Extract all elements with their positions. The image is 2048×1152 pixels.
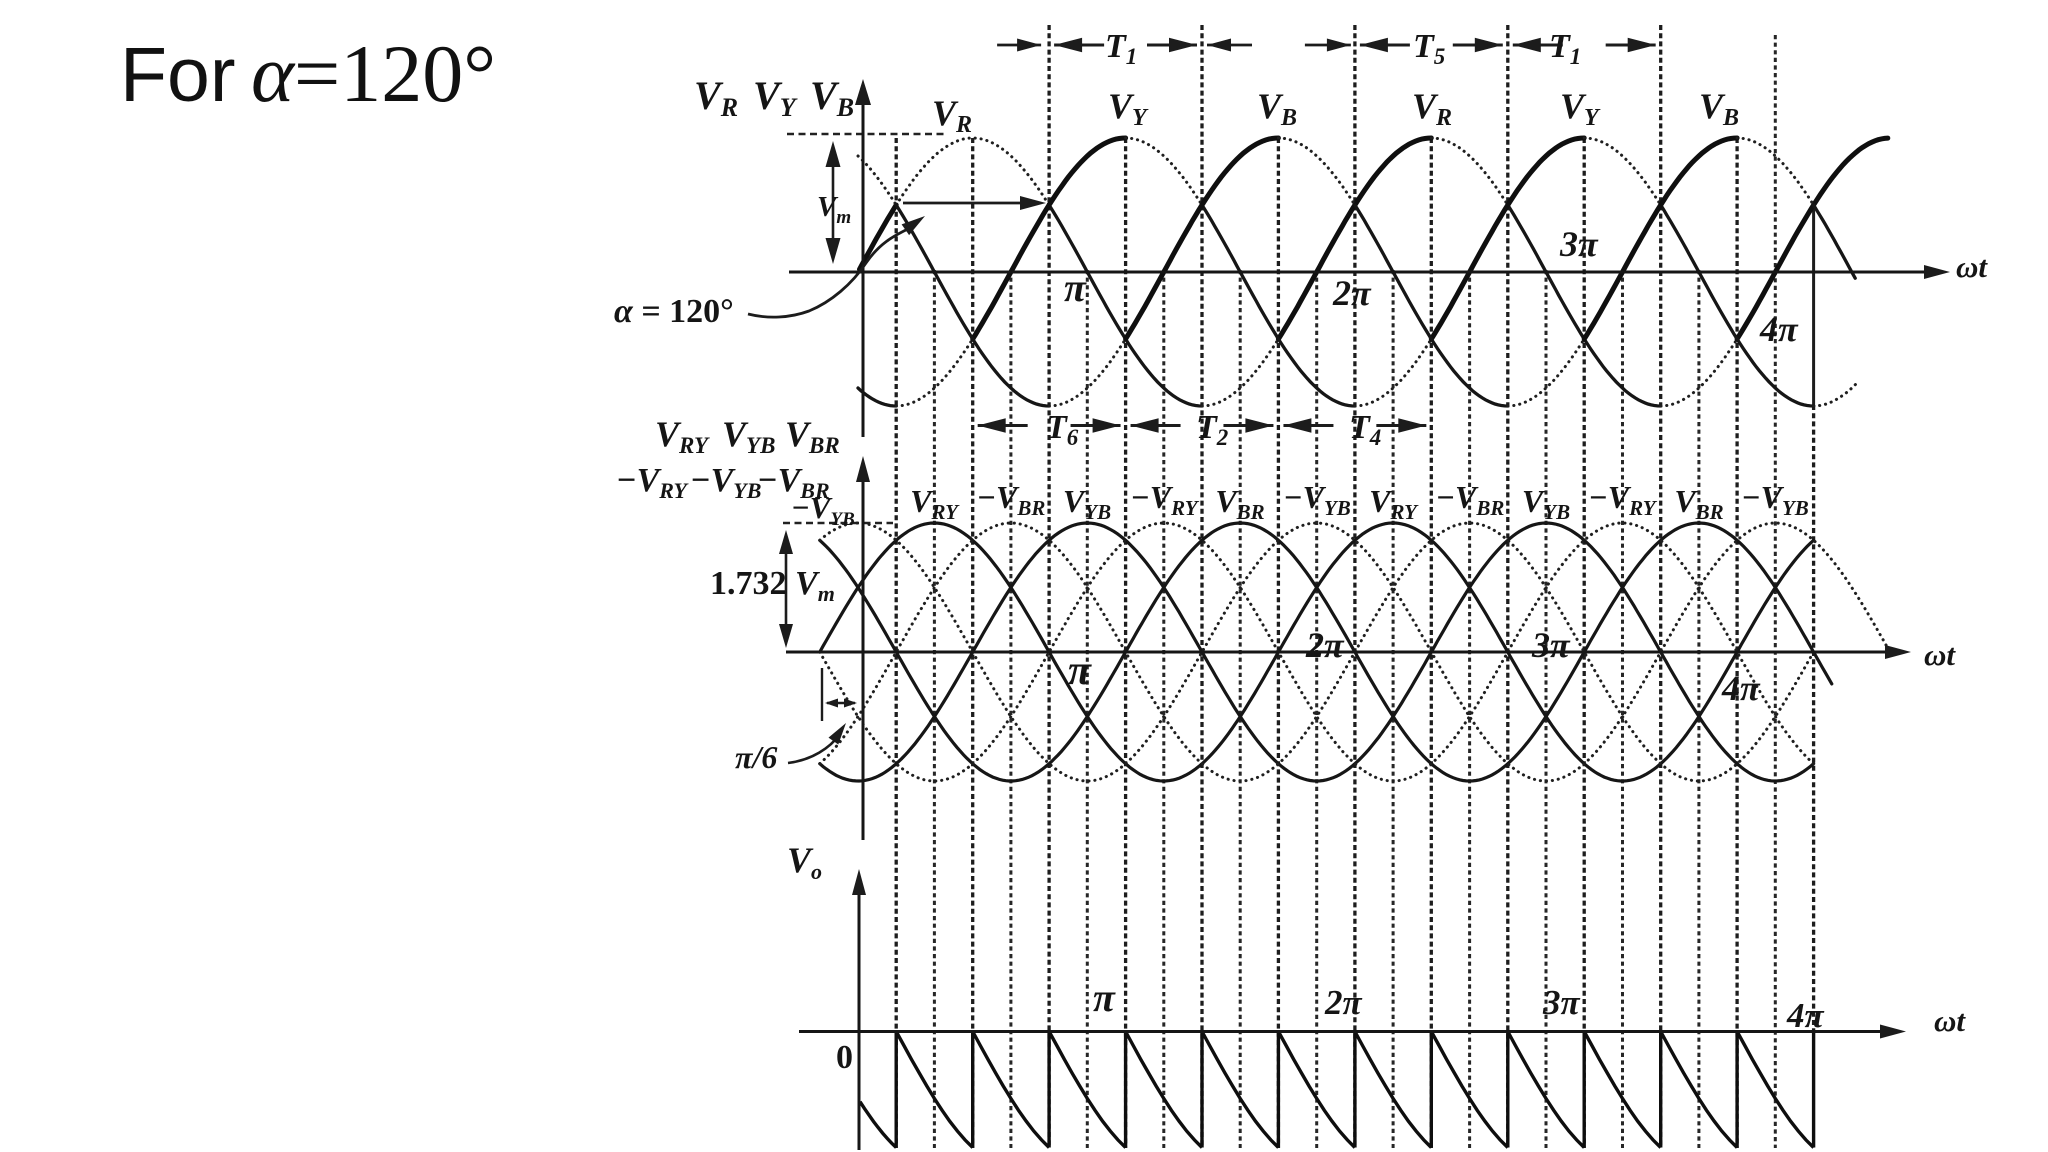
svg-text:2π: 2π (1324, 983, 1363, 1022)
svg-text:Vm: Vm (817, 191, 851, 228)
top plot: dashed peak level line (787, 133, 948, 135)
bottom plot vertical axis with arrow (858, 883, 861, 1150)
svg-text:−VBR: −VBR (1436, 479, 1505, 520)
leading right arrow before T1 (997, 44, 1041, 47)
svg-text:T5: T5 (1413, 28, 1445, 69)
svg-text:−VYB: −VYB (1741, 479, 1809, 520)
unlabeled interval arrows (1207, 44, 1252, 47)
svg-text:VYB: VYB (722, 414, 775, 458)
svg-text:α=120°: α=120° (251, 28, 496, 119)
svg-text:VYB: VYB (1063, 483, 1111, 524)
svg-text:−VYB: −VYB (690, 462, 761, 503)
waveform V_Y (phase Y) segments (858, 388, 896, 406)
svg-text:T4: T4 (1349, 409, 1381, 450)
svg-text:ωt: ωt (1956, 249, 1988, 284)
svg-text:π: π (1064, 265, 1087, 310)
svg-text:VBR: VBR (1215, 483, 1264, 524)
svg-text:VYB: VYB (1522, 483, 1570, 524)
svg-text:π: π (1068, 648, 1092, 694)
svg-text:ωt: ωt (1924, 637, 1956, 672)
svg-text:π/6: π/6 (735, 739, 777, 775)
svg-text:VR: VR (694, 73, 738, 122)
vertical pi/6 gridlines (895, 138, 898, 1148)
svg-text:ωt: ωt (1934, 1003, 1966, 1038)
svg-text:T1: T1 (1549, 28, 1581, 69)
output voltage Vo sawtooth (860, 1032, 1814, 1148)
waveform V_R (phase R) segments (860, 205, 897, 269)
svg-text:VRY: VRY (910, 483, 960, 524)
waveform V_B (phase B) segments (858, 156, 896, 205)
svg-text:2π: 2π (1305, 625, 1345, 665)
svg-text:−VYB: −VYB (791, 490, 855, 530)
T1 interval arrows (1054, 44, 1104, 47)
svg-text:VB: VB (1257, 86, 1297, 131)
T2 interval arrows (1131, 424, 1181, 427)
svg-text:VR: VR (932, 93, 972, 138)
line voltage V_BR (solid) (820, 523, 1832, 781)
middle plot horizontal axis with arrow (786, 651, 1898, 654)
svg-text:VY: VY (1108, 86, 1149, 131)
svg-text:4π: 4π (1786, 996, 1825, 1035)
svg-text:Vo: Vo (787, 840, 822, 884)
svg-text:VY: VY (1560, 86, 1601, 131)
1.732 Vm measure double arrow (785, 536, 788, 640)
T5 interval arrows (1360, 44, 1410, 47)
line voltage V_RY (solid) (820, 523, 1814, 781)
svg-text:VRY: VRY (1369, 483, 1419, 524)
line voltage V_YB (solid) (820, 523, 1814, 781)
svg-text:VBR: VBR (785, 414, 840, 458)
svg-text:VB: VB (810, 73, 854, 122)
svg-text:VY: VY (753, 73, 798, 122)
horizontal period arrow from first peak (903, 202, 1036, 205)
svg-text:VRY: VRY (655, 414, 710, 458)
T1b interval arrows (1513, 44, 1563, 47)
alpha=120 deg leader arrow (748, 228, 910, 317)
svg-text:VBR: VBR (1674, 483, 1723, 524)
svg-text:0: 0 (836, 1039, 853, 1076)
svg-text:VR: VR (1412, 86, 1452, 131)
svg-text:1.732 Vm: 1.732 Vm (710, 565, 835, 606)
svg-text:−VRY: −VRY (616, 462, 690, 503)
pi/6 offset tick (821, 668, 823, 721)
svg-text:4π: 4π (1721, 668, 1761, 708)
svg-text:VB: VB (1699, 86, 1739, 131)
svg-text:3π: 3π (1531, 625, 1571, 665)
pi/6 double arrow (827, 702, 855, 704)
svg-text:π: π (1093, 975, 1116, 1020)
T4 interval arrows (1283, 424, 1333, 427)
svg-text:For: For (120, 32, 236, 118)
bottom plot horizontal axis with arrow (799, 1030, 1893, 1033)
middle plot vertical axis with arrow (862, 470, 865, 840)
svg-text:T6: T6 (1046, 409, 1079, 450)
svg-text:−VBR: −VBR (977, 479, 1046, 520)
svg-text:3π: 3π (1542, 983, 1581, 1022)
svg-text:−VYB: −VYB (1283, 479, 1351, 520)
top plot vertical axis with arrow (862, 100, 865, 437)
Vm measure double arrow (832, 150, 835, 258)
line voltage -V_BR (dotted) (820, 523, 1814, 781)
T6 interval arrows (978, 424, 1028, 427)
svg-text:T2: T2 (1196, 409, 1228, 450)
svg-text:4π: 4π (1759, 309, 1799, 349)
svg-text:−VRY: −VRY (1588, 479, 1657, 520)
top plot horizontal axis with arrow (789, 271, 1938, 274)
svg-text:3π: 3π (1559, 224, 1599, 264)
middle plot: dashed peak level line (783, 522, 893, 524)
line voltage -V_RY (dotted) (820, 523, 1814, 781)
line voltage -V_YB (dotted) (820, 523, 1890, 781)
pi/6 leader arrow (788, 734, 840, 763)
svg-text:T1: T1 (1105, 28, 1137, 69)
svg-text:−VRY: −VRY (1130, 479, 1199, 520)
svg-text:α = 120°: α = 120° (614, 293, 734, 330)
svg-text:2π: 2π (1332, 273, 1372, 313)
